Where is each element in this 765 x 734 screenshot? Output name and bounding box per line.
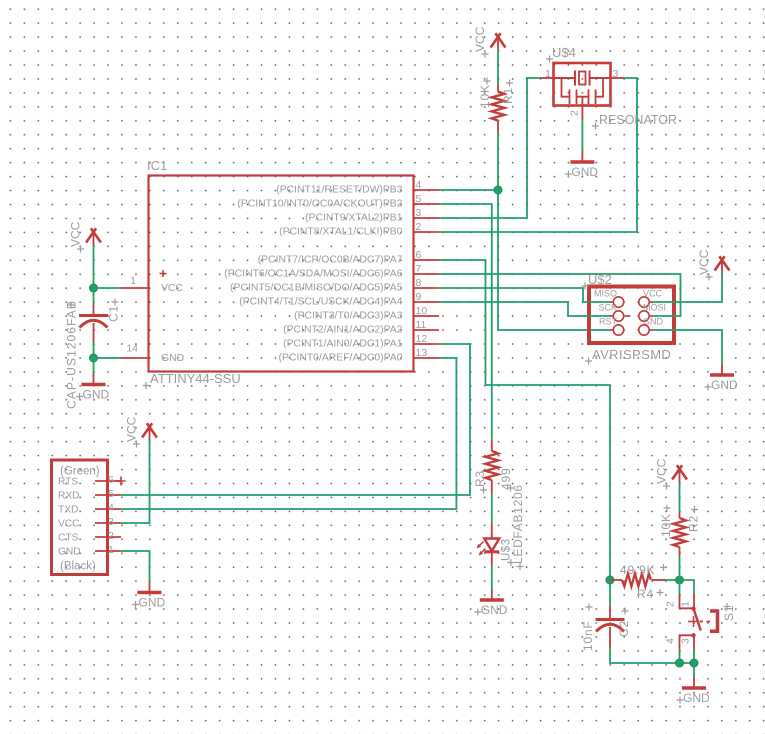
- LED cathode lead: [491, 552, 493, 565]
- VCC symbol (top, RESET pull-up): [491, 33, 506, 47]
- FTDI pin GND line: [95, 550, 121, 552]
- wire junction to GND symbol: [93, 358, 95, 374]
- U$2 SCK pin tick: [624, 315, 631, 317]
- svg-text:(PCINT8/XTAL1/CLKI)PB0: (PCINT8/XTAL1/CLKI)PB0: [279, 227, 403, 238]
- FTDI pin CTS line: [95, 536, 121, 538]
- capacitor C2 plates: [596, 618, 625, 621]
- wire AVRISP GND pin to GND: [653, 330, 722, 364]
- IC1 pin 3 stub: [414, 217, 440, 219]
- svg-text:MISO: MISO: [594, 289, 617, 299]
- svg-text:GND: GND: [643, 317, 664, 327]
- U$2 pin SCK circle: [613, 311, 623, 321]
- switch S1 pin 2 lead: [680, 594, 693, 608]
- junction RC node (R4/C2): [606, 576, 614, 584]
- LED U$3 anode lead: [491, 524, 493, 538]
- svg-text:GND: GND: [481, 603, 508, 617]
- wire pin4 PB3 to junction: [439, 189, 498, 191]
- switch S1 pin 1 lead: [693, 594, 695, 608]
- capacitor C2 top lead: [609, 606, 611, 618]
- svg-text:(PCINT10/INT0/OC0A/CKOUT)PB2: (PCINT10/INT0/OC0A/CKOUT)PB2: [237, 199, 402, 210]
- ground symbol (resonator): [581, 151, 583, 162]
- svg-text:1: 1: [545, 68, 551, 80]
- wire R3 to LED: [491, 493, 493, 524]
- wire VCC to R1 top: [497, 60, 499, 85]
- svg-text:1: 1: [108, 544, 114, 556]
- svg-text:2: 2: [569, 110, 581, 116]
- wire C1 to GND junction: [93, 342, 95, 358]
- svg-text:2: 2: [416, 221, 422, 233]
- svg-text:U$4: U$4: [552, 45, 576, 60]
- capacitor C2 bottom lead: [609, 627, 611, 648]
- svg-text:GND: GND: [683, 691, 710, 705]
- IC1 pin 6 stub: [414, 259, 440, 261]
- ground symbol (switch): [693, 677, 695, 688]
- svg-text:CTS: CTS: [58, 533, 79, 544]
- svg-text:VCC: VCC: [58, 519, 80, 530]
- svg-text:7: 7: [416, 263, 422, 275]
- switch S1 pin 3 lead: [693, 635, 695, 649]
- svg-text:49.9K: 49.9K: [620, 563, 655, 577]
- wire pin7 PA6 to AVRISP MOSI: [439, 274, 681, 316]
- wire button junction to switch pins 1,2: [679, 580, 681, 594]
- svg-text:R1: R1: [501, 87, 515, 104]
- U$2 pin MOSI circle: [639, 311, 649, 321]
- resistor R2 pins: [679, 512, 681, 518]
- svg-text:R2: R2: [687, 515, 701, 532]
- svg-text:1: 1: [130, 275, 136, 287]
- svg-text:(PCINT3/T0/ADC3)PA3: (PCINT3/T0/ADC3)PA3: [294, 311, 403, 322]
- resistor R3 pins: [491, 439, 493, 451]
- IC1 pin 4 stub: [414, 189, 440, 191]
- svg-text:VCC: VCC: [643, 289, 663, 299]
- wire FTDI RXD to IC pin12 PA1: [121, 344, 470, 495]
- svg-text:VCC: VCC: [125, 416, 139, 442]
- svg-text:(PCINT5/OC1B/MISO/DO/ADC5)PA5: (PCINT5/OC1B/MISO/DO/ADC5)PA5: [230, 283, 403, 294]
- resonator crystal element: [554, 71, 611, 86]
- svg-text:5: 5: [416, 193, 422, 205]
- svg-text:VCC: VCC: [473, 26, 487, 52]
- wire junction to IC pin1: [94, 287, 121, 289]
- junction VCC node at C1: [90, 284, 98, 292]
- resonator pin 2 line: [581, 106, 583, 121]
- svg-text:(PCINT0/AREF/ADC0)PA0: (PCINT0/AREF/ADC0)PA0: [279, 353, 403, 364]
- svg-text:VCC: VCC: [69, 221, 83, 247]
- U$2 pin VCC circle: [639, 297, 649, 307]
- resonator pin 3 line: [611, 77, 625, 79]
- junction ground rail right: [690, 659, 698, 667]
- svg-text:(Black): (Black): [60, 561, 96, 573]
- svg-text:6: 6: [416, 249, 422, 261]
- svg-text:9: 9: [416, 291, 422, 303]
- wire resonator pin2 to GND: [581, 120, 583, 151]
- junction GND node at C1: [90, 354, 98, 362]
- junction RESET node: [494, 186, 502, 194]
- svg-text:2: 2: [665, 601, 677, 607]
- wire ground rail to GND: [693, 663, 695, 677]
- wire R4 to button junction: [666, 579, 680, 581]
- svg-text:GND: GND: [83, 388, 110, 402]
- svg-text:RESONATOR: RESONATOR: [599, 113, 677, 127]
- U$2 pin MISO circle: [613, 297, 623, 307]
- wire R1 bottom to RESET junction: [497, 133, 499, 190]
- svg-text:LEDFAB1206: LEDFAB1206: [511, 484, 525, 564]
- LED U$3 triangle and cathode bar: [484, 539, 499, 552]
- svg-text:VCC: VCC: [655, 458, 669, 484]
- svg-text:VCC: VCC: [161, 283, 183, 294]
- svg-text:3: 3: [680, 638, 692, 644]
- wire switch pins 3,4 to ground rail: [679, 650, 681, 663]
- wire RESET junction down to AVRISP RST: [498, 190, 610, 330]
- capacitor C1 plates: [79, 314, 108, 317]
- wire C2 to ground rail: [610, 648, 694, 663]
- svg-text:VCC: VCC: [697, 249, 711, 275]
- IC1 pin 2 stub: [414, 231, 440, 233]
- wire VCC to R2: [679, 492, 681, 512]
- IC1 pin 8 stub: [414, 287, 440, 289]
- svg-text:12: 12: [416, 333, 428, 345]
- U$2 pin RST circle: [613, 325, 623, 335]
- ground symbol (FTDI): [149, 582, 151, 593]
- wire pin9 PA4 to AVRISP SCK: [439, 302, 610, 316]
- wire VCC to C1 junction: [93, 255, 95, 288]
- svg-text:AVRISPSMD: AVRISPSMD: [592, 347, 671, 362]
- IC1 pin 14 stub (GND): [121, 357, 149, 359]
- svg-text:GND: GND: [161, 353, 184, 364]
- resistor R1: [492, 92, 505, 121]
- connector FTDI header body: [52, 460, 108, 575]
- ground symbol (C1): [93, 374, 95, 385]
- svg-text:4: 4: [416, 179, 422, 191]
- switch S1 actuator bracket: [710, 611, 718, 631]
- svg-text:RXD: RXD: [58, 491, 80, 502]
- wire pin5 PB2 to R3: [439, 204, 492, 439]
- svg-text:(PCINT2/AIN1/ADC2)PA2: (PCINT2/AIN1/ADC2)PA2: [283, 325, 403, 336]
- svg-text:ATTINY44-SSU: ATTINY44-SSU: [150, 371, 241, 386]
- svg-text:10: 10: [416, 305, 428, 317]
- wire FTDI GND to GND symbol: [121, 551, 150, 582]
- svg-text:10K: 10K: [659, 513, 673, 537]
- switch S1 pivot contacts: [691, 606, 695, 610]
- wire junction to IC pin14: [94, 357, 121, 359]
- svg-text:(PCINT6/OC1A/SDA/MOSI/ADC6)PA6: (PCINT6/OC1A/SDA/MOSI/ADC6)PA6: [224, 269, 402, 280]
- svg-text:R3: R3: [473, 470, 487, 487]
- IC1 pin 13 stub: [414, 357, 440, 359]
- svg-text:5: 5: [108, 488, 114, 500]
- svg-text:GND: GND: [711, 378, 738, 392]
- IC1 pin 10 stub: [414, 315, 440, 317]
- IC IC1 ATTINY44-SSU body: [149, 176, 414, 372]
- svg-text:14: 14: [126, 343, 138, 355]
- svg-text:3: 3: [108, 516, 114, 528]
- resistor R2: [673, 518, 686, 547]
- wire R2 to button junction: [679, 556, 681, 580]
- wire AVRISP VCC pin to VCC: [653, 283, 722, 302]
- wire FTDI TXD to IC pin13 PA0: [121, 358, 456, 509]
- junction ground rail left: [676, 659, 684, 667]
- resonator U$4 body: [554, 63, 611, 106]
- VCC symbol (C1, IC supply): [86, 228, 101, 242]
- svg-text:GND: GND: [571, 165, 598, 179]
- FTDI pin TXD line: [95, 508, 121, 510]
- wire pin3 PB1 to resonator pin1: [439, 78, 540, 218]
- svg-text:SCK: SCK: [598, 303, 617, 313]
- svg-text:(PCINT1/AIN0/ADC1)PA1: (PCINT1/AIN0/ADC1)PA1: [283, 339, 403, 350]
- svg-text:(PCINT9/XTAL2)PB1: (PCINT9/XTAL2)PB1: [305, 213, 403, 224]
- IC1 pin 1 stub (VCC): [121, 287, 149, 289]
- svg-text:(PCINT4/T1/SCL/USCK/ADC4)PA4: (PCINT4/T1/SCL/USCK/ADC4)PA4: [239, 297, 402, 308]
- switch S1 lever: [694, 609, 701, 631]
- U$2 pin GND circle: [639, 325, 649, 335]
- wire RC junction to C2: [609, 580, 611, 606]
- svg-text:GND: GND: [58, 547, 81, 558]
- svg-text:4: 4: [665, 638, 677, 644]
- switch S1 pin 4 lead: [680, 635, 693, 649]
- junction button node: [676, 576, 684, 584]
- svg-text:11: 11: [416, 319, 427, 331]
- resistor R3: [485, 451, 498, 480]
- resistor R4 pins: [610, 579, 622, 581]
- IC1 pin 11 stub: [414, 329, 440, 331]
- IC1 pin 5 stub: [414, 203, 440, 205]
- wire LED to GND: [491, 565, 493, 589]
- capacitor C1 bottom lead: [93, 323, 95, 342]
- svg-text:10K: 10K: [478, 84, 492, 108]
- svg-text:R4: R4: [637, 587, 654, 601]
- wire pin2 PB0 to resonator pin3: [439, 78, 637, 232]
- svg-text:MOSI: MOSI: [643, 303, 666, 313]
- resonator internal capacitors: [562, 78, 604, 106]
- svg-text:IC1: IC1: [147, 158, 167, 173]
- LED light arrows: [478, 542, 486, 555]
- svg-text:4: 4: [108, 502, 114, 514]
- svg-text:2: 2: [108, 530, 114, 542]
- IC1 pin 12 stub: [414, 343, 440, 345]
- resistor R4: [622, 574, 651, 587]
- connector U$2 AVRISPSMD body: [589, 287, 674, 344]
- IC1 red plus mark: [160, 270, 167, 277]
- svg-text:3: 3: [416, 207, 422, 219]
- svg-text:6: 6: [108, 474, 114, 486]
- svg-text:3: 3: [613, 68, 619, 80]
- switch S1 actuator cross: [688, 616, 699, 627]
- wire pin8 PA5 to AVRISP MISO: [439, 288, 610, 302]
- svg-text:13: 13: [416, 347, 428, 359]
- svg-text:S1: S1: [722, 605, 736, 621]
- IC1 pin 7 stub: [414, 273, 440, 275]
- wire FTDI VCC to VCC symbol: [121, 450, 150, 523]
- svg-text:(PCINT11/RESET/DW)PB3: (PCINT11/RESET/DW)PB3: [276, 185, 402, 196]
- svg-text:(PCINT7/ICP/OC0B/ADC7)PA7: (PCINT7/ICP/OC0B/ADC7)PA7: [258, 255, 403, 266]
- FTDI pin VCC line: [95, 522, 121, 524]
- svg-text:C2: C2: [617, 620, 631, 637]
- VCC symbol (button pull-up): [672, 465, 687, 479]
- IC1 pin 9 stub: [414, 301, 440, 303]
- svg-text:RTS: RTS: [58, 477, 78, 488]
- VCC symbol (FTDI): [142, 423, 157, 437]
- svg-text:8: 8: [416, 277, 422, 289]
- FTDI pin RXD line: [95, 494, 121, 496]
- svg-text:1: 1: [680, 601, 692, 607]
- svg-text:CAP-US1206FAB: CAP-US1206FAB: [65, 300, 79, 409]
- svg-text:RST: RST: [599, 317, 618, 327]
- switch S1 actuator dashes: [700, 621, 713, 623]
- capacitor C1 top lead: [93, 303, 95, 315]
- FTDI RTS unconnected cross: [117, 477, 126, 486]
- svg-text:10nF: 10nF: [581, 620, 595, 651]
- wire pin6 PA7 to button RC node: [439, 260, 610, 580]
- FTDI pin RTS line: [95, 480, 121, 482]
- resonator pin 1 line: [540, 77, 554, 79]
- VCC symbol (AVRISP): [715, 256, 730, 270]
- resistor R1 pins: [497, 85, 499, 92]
- wire junction to C1 top: [93, 288, 95, 303]
- svg-text:TXD: TXD: [58, 505, 78, 516]
- ground symbol (AVRISP): [721, 364, 723, 375]
- svg-text:GND: GND: [139, 596, 166, 610]
- ground symbol (LED): [491, 589, 493, 600]
- svg-text:C1: C1: [107, 305, 121, 322]
